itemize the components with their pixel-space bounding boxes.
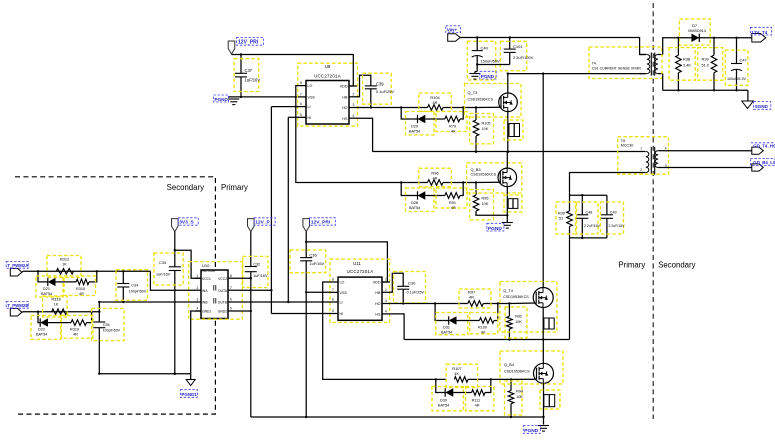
- blue label GD_T4: [751, 142, 775, 144]
- svg-text:4: 4: [385, 310, 387, 314]
- svg-text:1uF/16V: 1uF/16V: [309, 261, 324, 266]
- resistor R39 51.0: [711, 55, 717, 73]
- svg-text:2.2uF/16V: 2.2uF/16V: [584, 224, 601, 228]
- svg-text:HO: HO: [375, 302, 381, 306]
- wire INB row: [99, 301, 195, 303]
- svg-text:PGND1: PGND1: [181, 392, 197, 397]
- diode D30 BAT54 Q_B4: [445, 388, 453, 396]
- svg-text:VSS: VSS: [340, 291, 348, 295]
- capacitor C40 150uF/50V: [472, 50, 483, 52]
- wire flag1 to VCC1: [174, 232, 176, 251]
- svg-text:1uF/16V: 1uF/16V: [253, 274, 268, 278]
- wire T4 secondary top to D7 row: [663, 38, 752, 55]
- svg-text:U10: U10: [202, 263, 210, 268]
- wire U9 HI from bus B: [288, 116, 298, 118]
- pad jumper Q_T3: [509, 124, 520, 137]
- svg-text:R39: R39: [702, 57, 709, 62]
- svg-text:CSD19536KCS: CSD19536KCS: [471, 172, 497, 176]
- wire Q_T4 source to rail2: [542, 308, 544, 340]
- yellow box R96: [419, 168, 452, 186]
- resistor R312 1K: [56, 269, 73, 275]
- wire U11 LO loop to Q_B4 gate: [323, 282, 447, 379]
- svg-text:12V_T4: 12V_T4: [751, 30, 768, 35]
- svg-text:2: 2: [197, 286, 199, 290]
- yellow box D28: [406, 188, 435, 212]
- svg-text:GND2: GND2: [218, 310, 227, 314]
- resistor R96 4R gate Q_B3: [428, 180, 444, 186]
- svg-text:GD_B4_LS: GD_B4_LS: [753, 160, 775, 165]
- wire Q_T3 drain: [507, 74, 509, 93]
- resistor R95 10K pulldown Q_B3: [475, 183, 477, 196]
- pad jumper Q_T4: [544, 318, 554, 329]
- svg-text:Q_B3: Q_B3: [471, 167, 481, 172]
- diode D28 BAT54 Q_B3: [418, 191, 426, 199]
- isolation boundary right dashed line: [652, 3, 654, 419]
- svg-text:INA: INA: [202, 289, 208, 293]
- svg-text:Primary: Primary: [221, 183, 248, 192]
- yellow box Q_T3: [465, 84, 522, 118]
- yellow box C49: [601, 202, 624, 234]
- svg-text:1: 1: [197, 274, 199, 278]
- blue label PGND Q_B3: [487, 223, 504, 231]
- svg-text:12V_PRI: 12V_PRI: [311, 220, 331, 226]
- wire gate into Q_B3: [476, 181, 500, 183]
- wire diode to R91: [425, 195, 445, 197]
- svg-text:R92: R92: [515, 315, 522, 319]
- pad jumper Q_B3: [508, 199, 518, 209]
- svg-text:Q_T3: Q_T3: [468, 90, 478, 95]
- resistor R104 4R gate Q_T3: [428, 105, 444, 111]
- ground SGND triangle left: [190, 374, 192, 380]
- wire U10 OUTA to bus A: [234, 289, 271, 291]
- svg-text:C30: C30: [408, 281, 416, 286]
- wire U9 HS to switch node rail: [357, 118, 373, 152]
- svg-text:1K: 1K: [62, 262, 67, 267]
- resistor R100 4K Q_T4: [479, 318, 494, 324]
- digital isolator U10 ISO7220 body: [201, 270, 228, 319]
- svg-text:U9: U9: [325, 64, 331, 69]
- yellow box D7: [679, 19, 710, 45]
- svg-text:R94: R94: [516, 390, 523, 394]
- svg-text:R319: R319: [70, 328, 79, 332]
- wire U10 GND1 down: [191, 311, 201, 374]
- wire U11 HI from bus A: [271, 313, 330, 315]
- svg-text:4K: 4K: [451, 129, 456, 133]
- diode D31 BAT54 Q_T4: [449, 316, 457, 324]
- svg-text:6: 6: [300, 102, 302, 106]
- blue label SGND top right: [754, 102, 771, 110]
- wire U10 GND2 row: [234, 310, 251, 312]
- svg-text:0.1uF/25V: 0.1uF/25V: [376, 89, 394, 94]
- capacitor C101 2.2uF/100V: [504, 48, 516, 50]
- blue label PGND1 left: [180, 390, 197, 398]
- svg-text:51: 51: [559, 217, 563, 221]
- svg-text:PGND: PGND: [524, 428, 538, 434]
- svg-text:C34: C34: [131, 283, 138, 287]
- yellow box R107: [446, 364, 477, 387]
- wire bypass drop Q_T4: [435, 304, 443, 321]
- U11 pin stubs left: [330, 281, 338, 283]
- svg-text:3: 3: [353, 103, 355, 107]
- wire diode to R100: [457, 320, 480, 322]
- svg-text:8: 8: [230, 274, 232, 278]
- ground PGND below C40: [469, 73, 480, 75]
- svg-text:Primary: Primary: [618, 261, 645, 270]
- yellow box R318: [43, 296, 68, 317]
- svg-text:3: 3: [197, 298, 199, 302]
- wire bypass drop Q_B4: [436, 379, 442, 392]
- transformer T6 gate drive: [646, 152, 649, 173]
- wire secondary gnd rail left: [99, 373, 190, 375]
- wire U10 VCC2 row: [234, 277, 251, 279]
- svg-text:2.2uF/16V: 2.2uF/16V: [609, 224, 626, 228]
- svg-text:VDD: VDD: [340, 85, 348, 89]
- svg-text:BAT54: BAT54: [441, 330, 452, 334]
- wire U9 HB to bootstrap cap: [357, 75, 371, 97]
- blue label GD_B4: [751, 159, 775, 166]
- wire input rail to T4 primary: [508, 73, 645, 75]
- svg-text:T4: T4: [592, 62, 596, 66]
- resistor R38 2.4K: [676, 55, 682, 73]
- svg-text:LO: LO: [340, 281, 345, 285]
- svg-text:MCC30: MCC30: [621, 144, 633, 148]
- svg-text:C49: C49: [610, 211, 617, 215]
- blue label PGND at U9: [214, 95, 229, 102]
- svg-text:1uF/16V: 1uF/16V: [245, 78, 261, 83]
- wire Q_B3 drain from rail: [506, 152, 508, 168]
- svg-text:D7: D7: [692, 23, 697, 28]
- svg-text:4R: 4R: [79, 292, 84, 296]
- wire input row 2: [22, 311, 23, 314]
- blue label 12V_T4: [750, 27, 771, 35]
- yellow box C48: [577, 202, 599, 234]
- diode D22 BAT54 row2: [40, 318, 48, 326]
- resistor R318 1K: [52, 309, 67, 315]
- svg-text:2: 2: [640, 168, 642, 172]
- input connector PWM_A: [10, 268, 22, 276]
- svg-text:D22: D22: [38, 328, 45, 332]
- blue label 12V_PRI U11: [309, 218, 335, 225]
- svg-text:GD_T4_HS: GD_T4_HS: [753, 144, 775, 149]
- svg-text:6: 6: [332, 298, 334, 302]
- svg-text:BAT54: BAT54: [409, 129, 420, 133]
- svg-text:3V3_S: 3V3_S: [179, 220, 194, 226]
- svg-text:4R: 4R: [73, 333, 78, 337]
- yellow box D30: [432, 387, 463, 411]
- svg-text:4K: 4K: [454, 371, 459, 376]
- wire input row 1: [22, 270, 23, 273]
- blue label PWM_A: [6, 261, 28, 268]
- yellow box U11: [330, 259, 390, 322]
- svg-text:8: 8: [300, 81, 302, 85]
- svg-text:Q_B4: Q_B4: [504, 362, 515, 367]
- svg-text:4: 4: [665, 146, 667, 150]
- wire T6 pri bottom to coupling caps: [570, 173, 639, 196]
- yellow box C40: [467, 41, 495, 80]
- output connector GD_T4: [752, 147, 764, 154]
- U9 pin stubs left: [298, 85, 306, 87]
- yellow box R100: [470, 313, 498, 334]
- resistor R30 51 damping: [569, 195, 571, 211]
- yellow box R30: [556, 202, 576, 234]
- wire secondary gnd rail: [663, 89, 748, 91]
- wire switch node rail 1: [373, 151, 640, 153]
- svg-text:10K: 10K: [515, 320, 522, 324]
- svg-text:Secondary: Secondary: [658, 261, 695, 270]
- resistor R105 10K pulldown Q_T3: [475, 108, 477, 121]
- wire row2 riser to INB: [98, 302, 100, 312]
- yellow box R312: [47, 256, 81, 278]
- svg-text:BAT54: BAT54: [438, 403, 449, 407]
- svg-text:Secondary: Secondary: [167, 183, 204, 192]
- wire gate into Q_T4: [509, 302, 536, 305]
- svg-text:12V_PRI: 12V_PRI: [238, 40, 259, 46]
- diode D21 BAT54 row1: [48, 278, 56, 286]
- svg-text:LI: LI: [308, 105, 311, 109]
- yellow box C101: [500, 41, 526, 70]
- U10 pin stubs right: [228, 277, 234, 279]
- yellow box T6: [618, 137, 669, 175]
- svg-text:4R: 4R: [433, 175, 438, 180]
- yellow box C47: [725, 50, 748, 85]
- wire row1 riser to INA: [150, 271, 195, 290]
- yellow box pad Q_T3: [504, 120, 523, 140]
- svg-text:VCC1: VCC1: [202, 277, 211, 281]
- diode D29 BAT54 Q_T3: [418, 115, 426, 123]
- resistor R319 4R row2: [71, 320, 87, 326]
- svg-text:D30: D30: [440, 398, 447, 402]
- yellow box U9: [298, 63, 358, 126]
- yellow box R95: [470, 190, 494, 220]
- svg-text:10K: 10K: [482, 202, 489, 206]
- svg-text:4R: 4R: [451, 206, 456, 210]
- wire bypass drop Q_B3: [401, 183, 412, 196]
- blue label 12V_P: [254, 218, 275, 225]
- yellow box R91: [436, 188, 467, 208]
- svg-text:7: 7: [300, 93, 302, 97]
- svg-text:VIN+: VIN+: [447, 28, 458, 33]
- resistor R94 10K pulldown Q_B4: [510, 379, 512, 390]
- pad jumper Q_B4: [544, 395, 555, 407]
- wire flag to VDD riser: [232, 55, 354, 87]
- wire T6 sec top to connector: [665, 150, 752, 152]
- svg-text:R38: R38: [683, 57, 690, 62]
- svg-text:C39: C39: [376, 82, 384, 87]
- wire Q_B3 source down: [506, 187, 508, 223]
- svg-text:3: 3: [385, 299, 387, 303]
- svg-text:SGND: SGND: [755, 104, 769, 109]
- svg-text:2: 2: [385, 288, 387, 292]
- svg-text:4: 4: [353, 114, 355, 118]
- wire bypass drop row2: [38, 312, 40, 323]
- wire coupling cluster top rail: [570, 194, 607, 196]
- wire flag3 to U11 VDD: [305, 232, 307, 242]
- yellow box pad Q_B4: [540, 390, 560, 409]
- wire U9 LO loop to Q_B3 gate: [296, 86, 428, 183]
- svg-text:C101: C101: [513, 44, 523, 49]
- output connector GD_B4: [752, 164, 764, 171]
- svg-text:D28: D28: [411, 201, 418, 205]
- svg-text:1: 1: [353, 82, 355, 86]
- power flag VDD top (12V_PRI) at U9: [228, 41, 235, 54]
- svg-text:HS: HS: [375, 313, 381, 317]
- wire diode to R319: [48, 322, 71, 324]
- svg-text:R79: R79: [449, 124, 456, 128]
- svg-text:6: 6: [230, 298, 232, 302]
- resistor R92 10K pulldown Q_T4: [508, 304, 510, 317]
- transformer T4 current sense: [647, 55, 650, 74]
- svg-text:100pF/50V: 100pF/50V: [103, 329, 121, 333]
- svg-text:HB: HB: [375, 291, 381, 295]
- svg-text:MMSD914: MMSD914: [688, 29, 705, 33]
- svg-text:51.0: 51.0: [702, 63, 710, 68]
- yellow box C36: [290, 250, 326, 273]
- U10 pin stubs left: [195, 277, 201, 279]
- svg-text:INB: INB: [202, 301, 208, 305]
- wire diode to R315: [56, 281, 77, 283]
- yellow box D29: [406, 112, 435, 136]
- input connector VIN+: [448, 34, 461, 42]
- svg-text:PGND: PGND: [481, 74, 495, 79]
- svg-text:8: 8: [332, 278, 334, 282]
- svg-text:D21: D21: [43, 287, 50, 291]
- yellow box R111: [466, 387, 494, 411]
- svg-text:BAT54: BAT54: [409, 206, 420, 210]
- wire T6 sec bottom to connector: [665, 167, 752, 169]
- ground PGND bottom: [543, 417, 545, 425]
- gate driver IC U9 UCC27201A body: [306, 81, 349, 125]
- svg-text:5: 5: [230, 307, 232, 311]
- svg-text:HI: HI: [308, 116, 312, 120]
- svg-text:PGND: PGND: [215, 97, 229, 102]
- resistor R97 4R gate Q_T4: [468, 301, 484, 307]
- capacitor C35 100pF/50V: [93, 321, 105, 323]
- svg-text:CSD19536KCS: CSD19536KCS: [504, 369, 530, 373]
- gate driver IC U11 UCC27201A body: [338, 277, 382, 320]
- svg-text:HO: HO: [342, 106, 348, 110]
- wire pgnd rail bottom: [251, 416, 544, 418]
- svg-text:1: 1: [385, 278, 387, 282]
- ground PGND Q_B3: [502, 222, 513, 224]
- svg-text:C48: C48: [586, 211, 593, 215]
- svg-text:R95: R95: [482, 197, 489, 201]
- yellow box D22: [31, 315, 61, 339]
- svg-text:C37: C37: [245, 68, 253, 73]
- wire coupling cluster bottom rail: [570, 237, 607, 239]
- yellow box Q_T4: [500, 282, 557, 333]
- svg-text:U11: U11: [353, 261, 361, 266]
- svg-text:R315: R315: [76, 287, 85, 291]
- svg-text:100uF/6.3V: 100uF/6.3V: [727, 77, 747, 81]
- svg-text:0.1uF/25V: 0.1uF/25V: [407, 291, 425, 295]
- svg-text:4R: 4R: [433, 100, 438, 105]
- svg-text:2: 2: [353, 92, 355, 96]
- transistor Q_T3 CSD19536: [499, 93, 518, 112]
- svg-text:D29: D29: [411, 124, 418, 128]
- svg-text:150uF/50V: 150uF/50V: [481, 59, 501, 64]
- svg-text:BAT54: BAT54: [36, 333, 47, 337]
- yellow box R92: [505, 307, 527, 338]
- yellow box C30: [394, 272, 426, 304]
- blue label PGND bottom: [523, 426, 540, 434]
- wire gate into Q_T3: [476, 106, 501, 108]
- power flag 12V_P right of U10: [248, 219, 255, 232]
- svg-text:T_PWM2B: T_PWM2B: [7, 303, 28, 308]
- yellow box Q_B3: [467, 163, 522, 193]
- capacitor C37 1uF/16V at U9 VDD: [235, 72, 247, 74]
- svg-text:R111: R111: [472, 398, 480, 402]
- svg-text:OUTB: OUTB: [218, 301, 228, 305]
- U11 pin stubs right: [382, 281, 390, 283]
- svg-text:C40: C40: [481, 46, 489, 51]
- wire coupling cluster to switch node 2: [569, 238, 571, 340]
- wire VIN+ rail to T4: [460, 38, 645, 55]
- ground SGND triangle top right: [747, 90, 749, 101]
- wire bypass drop row1: [38, 271, 43, 282]
- svg-text:HB: HB: [342, 95, 348, 99]
- svg-text:GND1: GND1: [202, 310, 211, 314]
- isolation boundary left (secondary/primary) dashed border: [15, 177, 215, 414]
- yellow box R39: [698, 48, 723, 81]
- yellow box C34: [116, 270, 148, 301]
- svg-text:1uF/16V: 1uF/16V: [156, 272, 171, 276]
- svg-text:C47: C47: [740, 58, 747, 63]
- blue label PWM_B: [6, 301, 28, 308]
- wire bypass drop Q_T3: [401, 108, 412, 120]
- resistor R79 4K Q_T3: [445, 116, 460, 122]
- blue label PGND below C40: [480, 71, 496, 79]
- svg-text:C32: C32: [253, 261, 260, 266]
- wire U11 HS to switch node rail 2: [390, 314, 404, 340]
- yellow box pad Q_B3: [504, 195, 522, 212]
- wire flag2 to VCC2 and C32: [250, 232, 252, 267]
- svg-text:1: 1: [640, 146, 642, 150]
- resistor R315 4R row1: [76, 279, 89, 285]
- svg-text:VDD: VDD: [373, 281, 381, 285]
- svg-text:100pF/50V: 100pF/50V: [129, 290, 147, 294]
- svg-text:C36: C36: [309, 252, 317, 257]
- wire U9 LI from bus A: [271, 106, 298, 108]
- capacitor C32 1uF/16V at U10 VCC2: [245, 266, 257, 268]
- yellow box R94: [505, 381, 523, 415]
- capacitor C30 0.1uF/25V bootstrap U11: [397, 285, 409, 287]
- svg-text:OUTA: OUTA: [218, 289, 228, 293]
- svg-text:VSS: VSS: [308, 95, 316, 99]
- capacitor C34 100pF/50V: [117, 283, 129, 285]
- yellow box C32: [243, 256, 268, 287]
- svg-text:12V_P: 12V_P: [255, 220, 270, 226]
- svg-text:R30: R30: [558, 212, 565, 216]
- wire switch node rail 2: [404, 339, 569, 341]
- svg-text:4K: 4K: [481, 330, 486, 334]
- wire U9 HO to gate row Q_T3: [357, 107, 428, 109]
- wire C101 to ground join: [477, 64, 510, 66]
- yellow box Q_B4: [500, 351, 563, 384]
- output connector 12V_T4: [752, 34, 766, 43]
- svg-text:ISO7220: ISO7220: [202, 269, 216, 273]
- yellow box C33: [154, 253, 183, 285]
- U9 pin stubs right: [349, 85, 357, 87]
- svg-text:Q_T4: Q_T4: [503, 288, 514, 293]
- wire U10 OUTB row to U11 LI: [234, 301, 288, 303]
- yellow box C37: [234, 59, 259, 92]
- svg-text:7: 7: [332, 288, 334, 292]
- svg-text:D31: D31: [443, 325, 450, 329]
- transistor Q_T4 CSD19536: [533, 288, 553, 308]
- svg-text:C35: C35: [103, 323, 110, 327]
- svg-text:HS: HS: [342, 117, 348, 121]
- svg-text:CSD19536KCS: CSD19536KCS: [468, 97, 494, 101]
